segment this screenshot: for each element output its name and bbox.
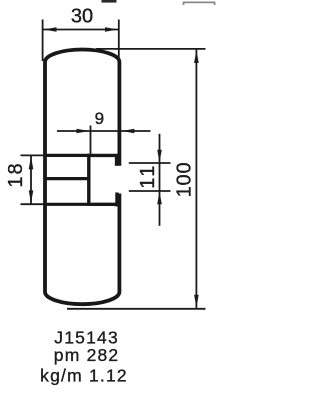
svg-text:100: 100 (173, 162, 195, 198)
dim 100: bottom arrowhead (194, 295, 199, 308)
dim 30: right arrowhead (105, 27, 118, 32)
dim 11: dimension line with tails (159, 134, 161, 226)
dim 11: top extension line (129, 162, 171, 164)
dim 11: upward arrowhead (157, 192, 162, 205)
dim 30: dimension line (43, 29, 119, 31)
bottom web between outer wall and slot (45, 203, 89, 206)
svg-text:30: 30 (71, 6, 93, 28)
dim 18: bottom extension line (21, 203, 46, 205)
dim 100: bottom extension line (67, 308, 206, 310)
dim 18: upward arrowhead (29, 156, 34, 169)
dim 100: top extension line (96, 48, 206, 50)
profile outline (rounded rectangle cross-section, mouth gap on right side) (45, 50, 119, 305)
dim 18: downward arrowhead (29, 190, 34, 203)
dim 30: right extension line (118, 20, 120, 61)
svg-text:kg/m 1.12: kg/m 1.12 (40, 366, 128, 386)
slot channel walls (C-slot open to right) (89, 155, 121, 204)
svg-text:pm 282: pm 282 (54, 345, 120, 365)
svg-text:11: 11 (137, 163, 159, 189)
dim 18: top extension line (21, 154, 46, 156)
dim 100: top arrowhead (194, 50, 199, 63)
dim 9: right-pointing arrowhead (77, 129, 90, 133)
cropped dimension-line remnant from drawing above, top edge (102, 0, 117, 3)
dim 100: dimension line (195, 50, 197, 309)
top web between outer wall and slot (45, 154, 89, 157)
slot mouth top lip (115, 155, 119, 166)
slot mouth bottom lip / wall below mouth (115, 193, 119, 207)
dim 30: left arrowhead (43, 27, 56, 32)
svg-text:9: 9 (95, 109, 104, 128)
dim 11: downward arrowhead (157, 150, 162, 163)
svg-text:18: 18 (5, 161, 27, 187)
dim 9: left-pointing arrowhead (121, 129, 134, 133)
dim 30: left extension line (42, 20, 44, 62)
dim 11: bottom extension line (129, 190, 171, 192)
middle web rib (45, 177, 89, 180)
dim 9: dimension line (57, 130, 151, 132)
cropped gray cell-border remnant, top right (184, 2, 215, 5)
dim 18: dimension line (30, 156, 32, 204)
dim 9: left extension line (90, 126, 92, 156)
